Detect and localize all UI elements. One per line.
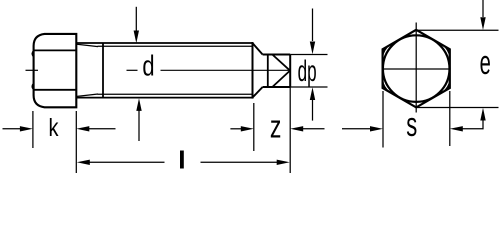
cone silhouette upper	[272, 55, 290, 71]
svg-text:d: d	[142, 51, 154, 83]
thread minor diameter bottom	[98, 93, 253, 95]
svg-text:e: e	[480, 44, 491, 82]
arrowhead z right	[290, 126, 303, 131]
hex corner wedge upper-right	[443, 45, 450, 57]
arrowhead k right	[76, 126, 89, 131]
dim e bottom arrow shaft	[482, 119, 484, 129]
arrowhead dp top	[310, 42, 315, 55]
dim e top arrow shaft	[482, 0, 484, 17]
hex corner wedge lower-left	[383, 80, 390, 92]
head flat divider upper	[34, 49, 77, 51]
dim s left extension line	[382, 91, 384, 148]
arrowhead dp bottom	[310, 87, 315, 100]
thread runout diagonal top	[77, 44, 98, 46]
thread minor diameter top	[98, 45, 253, 47]
dim k right arrow shaft	[85, 128, 116, 130]
dim z right arrow shaft	[299, 128, 325, 130]
dog point end face	[289, 55, 291, 88]
thread end vertical	[252, 42, 254, 99]
point chamfer bottom	[253, 87, 263, 97]
hex horizontal centerline	[384, 68, 449, 70]
dim z/l shared extension line	[289, 87, 291, 173]
thread runout diagonal bottom	[77, 94, 98, 96]
svg-text:z: z	[270, 109, 282, 145]
label l	[180, 151, 184, 169]
head corner arc lower	[32, 84, 34, 90]
head outline	[34, 34, 77, 107]
arrowhead l right	[277, 160, 290, 165]
arrowhead e bottom	[480, 108, 485, 121]
dim l line right segment	[201, 161, 282, 163]
cone silhouette lower	[272, 71, 290, 87]
dim s right extension line	[449, 91, 451, 146]
dim k/l shared extension line	[75, 111, 77, 173]
dim s right arrow shaft	[461, 128, 483, 130]
centerline main	[161, 69, 291, 71]
dim l line left segment	[86, 161, 165, 163]
dog point bottom edge	[263, 86, 291, 88]
arrowhead e top	[480, 17, 485, 30]
hex corner wedge lower-right	[443, 80, 450, 92]
arrowhead l left	[77, 160, 90, 165]
dim k left arrow shaft	[3, 128, 24, 130]
dim dp top arrow shaft	[312, 9, 314, 42]
dim s left arrow shaft	[342, 128, 370, 130]
hex corner wedge upper-left	[383, 45, 390, 57]
dim dp bottom extension line	[290, 86, 327, 88]
dim dp bottom arrow shaft	[312, 97, 314, 121]
svg-text:s: s	[406, 106, 417, 144]
dim d top arrow shaft	[135, 7, 137, 31]
dim dp top extension line	[290, 54, 327, 56]
centerline dash left of d	[127, 69, 138, 71]
cone base vertical	[267, 55, 269, 88]
svg-text:dp: dp	[298, 55, 317, 88]
thread runout boundary vertical	[102, 43, 104, 98]
dim z left arrow shaft	[230, 128, 244, 130]
svg-text:k: k	[49, 114, 59, 142]
arrowhead d bottom	[136, 98, 141, 111]
head flat divider lower	[34, 89, 77, 91]
arrowhead z left	[241, 126, 254, 131]
hexagon outline	[383, 30, 450, 108]
inscribed circle	[383, 35, 450, 102]
point chamfer top	[253, 43, 263, 54]
dim k left extension line	[32, 111, 34, 148]
shank major diameter bottom	[76, 97, 252, 99]
dim e top extension line	[416, 29, 498, 31]
dim z left extension line	[253, 103, 255, 151]
arrowhead d top	[134, 31, 139, 44]
arrowhead k left	[20, 126, 33, 131]
centerline left stub	[26, 69, 39, 71]
dim d bottom arrow shaft	[138, 109, 140, 142]
shank major diameter top	[76, 42, 252, 44]
hex vertical centerline	[415, 23, 417, 113]
arrowhead s right	[450, 126, 463, 131]
arrowhead s left	[370, 126, 383, 131]
dog point top edge	[263, 54, 291, 56]
dim e bottom extension line	[416, 107, 498, 109]
head corner arc upper	[32, 51, 34, 57]
